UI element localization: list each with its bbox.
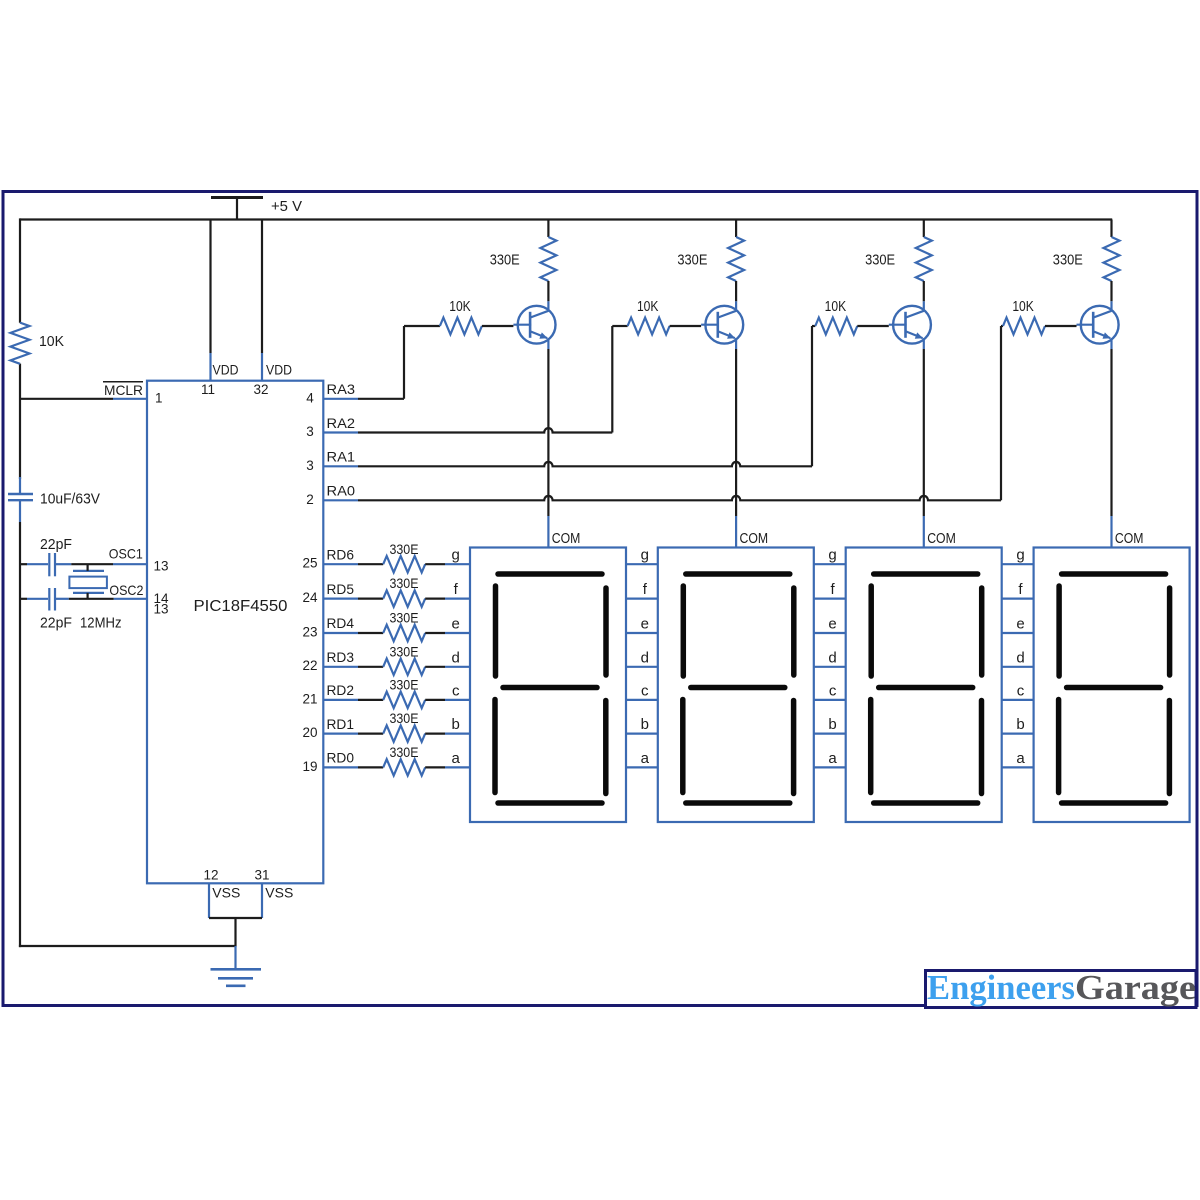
svg-text:330E: 330E [390, 677, 419, 693]
wire resistor to Q1 collector [547, 281, 549, 301]
ground [211, 968, 262, 971]
svg-text:RA3: RA3 [327, 381, 356, 397]
wire RA0 net to Q4 base resistor [358, 496, 1001, 500]
svg-text:d: d [641, 649, 649, 666]
svg-text:a: a [452, 750, 461, 767]
svg-text:d: d [1016, 649, 1024, 666]
svg-text:VSS: VSS [212, 886, 240, 901]
svg-text:COM: COM [927, 531, 956, 547]
transistor Q2 [701, 301, 743, 349]
svg-text:3: 3 [306, 424, 314, 439]
svg-text:1: 1 [155, 391, 163, 406]
svg-text:19: 19 [302, 759, 317, 774]
wire segment c bus DIS2 to DIS3 [814, 699, 846, 701]
svg-text:b: b [828, 716, 836, 733]
wire segment a bus DIS1 to DIS2 [626, 766, 658, 768]
wire RD5 to resistor [358, 597, 383, 599]
svg-text:RD4: RD4 [327, 615, 355, 631]
wire RD4 to resistor [358, 632, 383, 634]
wire resistor to segment c [425, 699, 445, 701]
svg-text:OSC1: OSC1 [109, 546, 143, 562]
resistor R14 10K base Q3 [812, 325, 815, 327]
resistor R16 10K base Q4 [1001, 325, 1003, 327]
resistor R6 330E segment c [383, 692, 425, 708]
wire segment g bus DIS3 to DIS4 [1002, 563, 1034, 565]
svg-text:25: 25 [302, 556, 317, 571]
wire resistor to segment f [425, 597, 445, 599]
wire +5V power rail [20, 218, 1112, 220]
wire segment f bus DIS2 to DIS3 [814, 597, 846, 599]
svg-text:c: c [452, 682, 460, 699]
resistor R5 330E segment d [383, 659, 425, 675]
wire Q3 emitter to COM [923, 349, 925, 516]
wire bottom rail [19, 945, 236, 947]
wire resistor to segment e [425, 632, 445, 634]
pin 23 RD4 [323, 632, 358, 634]
wire resistor to segment a [425, 766, 445, 768]
pin 24 RD5 [323, 597, 358, 599]
wire resistor to Q2 collector [735, 281, 737, 301]
wire segment b bus DIS1 to DIS2 [626, 732, 658, 734]
svg-text:24: 24 [302, 590, 318, 605]
pin 4 RA3 [323, 398, 358, 400]
wire RD3 to resistor [358, 666, 383, 668]
svg-text:330E: 330E [390, 744, 419, 760]
svg-text:330E: 330E [677, 253, 707, 269]
capacitor C3 22pF [48, 588, 50, 611]
svg-text:g: g [1016, 547, 1024, 564]
resistor R9 330E collector Q1 [540, 237, 556, 281]
svg-text:RD3: RD3 [327, 649, 355, 665]
svg-text:31: 31 [254, 868, 269, 883]
svg-text:330E: 330E [390, 710, 419, 726]
svg-text:d: d [828, 649, 836, 666]
svg-text:RD6: RD6 [327, 546, 355, 562]
wire RD2 to resistor [358, 699, 383, 701]
wire RD6 to resistor [358, 563, 383, 565]
svg-text:g: g [641, 547, 649, 564]
pin 20 RD1 [323, 732, 358, 734]
wire segment d bus DIS1 to DIS2 [626, 666, 658, 668]
svg-text:10K: 10K [449, 299, 471, 315]
wire RD1 to resistor [358, 732, 383, 734]
wire Q4 emitter to COM [1110, 349, 1112, 516]
svg-text:10K: 10K [637, 299, 659, 315]
svg-text:RD5: RD5 [327, 581, 355, 597]
7-segment display DIS2 [658, 548, 814, 823]
wire Q1 emitter to COM [547, 349, 549, 516]
wire segment b bus DIS3 to DIS4 [1002, 732, 1034, 734]
wire OSC1 net [20, 563, 27, 565]
transistor Q1 [513, 301, 555, 349]
+5V supply symbol [211, 196, 263, 199]
resistor R10 10K base Q1 [404, 325, 440, 327]
svg-text:b: b [641, 716, 649, 733]
svg-text:12MHz: 12MHz [80, 615, 122, 631]
svg-text:2: 2 [306, 492, 314, 507]
svg-text:RD0: RD0 [327, 750, 355, 766]
svg-text:22pF: 22pF [40, 537, 72, 553]
svg-text:23: 23 [302, 624, 317, 639]
pin 31 VSS [261, 883, 263, 918]
svg-text:a: a [1016, 750, 1025, 767]
resistor R15 330E collector Q4 [1104, 237, 1120, 281]
wire segment g bus DIS1 to DIS2 [626, 563, 658, 565]
wire segment e bus DIS2 to DIS3 [814, 632, 846, 634]
svg-text:10uF/63V: 10uF/63V [40, 492, 100, 508]
pin 2 RA0 [323, 499, 358, 501]
7-segment display DIS3 [846, 548, 1002, 823]
wire segment d bus DIS3 to DIS4 [1002, 666, 1034, 668]
wire +5V to collector resistor Q1 [547, 220, 549, 238]
wire resistor to segment g [425, 563, 445, 565]
svg-text:c: c [1017, 682, 1025, 699]
IC U1 PIC18F4550 [147, 381, 323, 884]
svg-text:MCLR: MCLR [104, 382, 143, 398]
pin 19 RD0 [323, 766, 358, 768]
pin 3 RA1 [323, 465, 358, 467]
pin 21 RD2 [323, 699, 358, 701]
svg-text:20: 20 [302, 725, 317, 740]
svg-text:330E: 330E [1053, 253, 1083, 269]
resistor R1 10K pull-up [11, 323, 30, 364]
svg-text:b: b [452, 716, 460, 733]
svg-text:22: 22 [302, 658, 317, 673]
wire segment e bus DIS3 to DIS4 [1002, 632, 1034, 634]
svg-text:10K: 10K [1012, 299, 1034, 315]
svg-text:d: d [452, 649, 460, 666]
svg-text:COM: COM [1115, 531, 1144, 547]
wire RA3 net to Q1 base resistor [358, 398, 404, 400]
svg-text:330E: 330E [390, 643, 419, 659]
crystal X1 12MHz [73, 570, 104, 572]
svg-text:g: g [828, 547, 836, 564]
capacitor C2 22pF [48, 553, 50, 576]
wire segment c bus DIS3 to DIS4 [1002, 699, 1034, 701]
svg-text:13: 13 [154, 558, 169, 573]
svg-text:PIC18F4550: PIC18F4550 [194, 598, 288, 615]
wire segment a bus DIS3 to DIS4 [1002, 766, 1034, 768]
svg-text:e: e [1016, 616, 1024, 633]
svg-text:21: 21 [302, 691, 317, 706]
wire RA1 net to Q3 base resistor [358, 462, 812, 466]
wire Q2 emitter to COM [735, 349, 737, 516]
svg-text:COM: COM [740, 531, 769, 547]
pin 22 RD3 [323, 666, 358, 668]
wire segment g bus DIS2 to DIS3 [814, 563, 846, 565]
svg-text:OSC2: OSC2 [109, 582, 143, 598]
svg-text:RA1: RA1 [327, 449, 356, 465]
pin 12 VSS [208, 883, 210, 918]
svg-text:330E: 330E [390, 541, 419, 557]
resistor R3 330E segment f [383, 590, 425, 606]
svg-text:11: 11 [201, 382, 215, 397]
wire segment d bus DIS2 to DIS3 [814, 666, 846, 668]
pin 32 VDD [261, 220, 263, 354]
transistor Q4 [1077, 301, 1119, 349]
pin 11 VDD [209, 220, 211, 354]
7-segment display DIS1 [470, 548, 626, 823]
resistor R7 330E segment b [383, 725, 425, 741]
wire RD0 to resistor [358, 766, 383, 768]
wire segment e bus DIS1 to DIS2 [626, 632, 658, 634]
svg-text:RA0: RA0 [327, 483, 356, 499]
svg-text:c: c [829, 682, 837, 699]
wire segment f bus DIS1 to DIS2 [626, 597, 658, 599]
svg-text:b: b [1016, 716, 1024, 733]
capacitor C1 10uF/63V [8, 493, 33, 495]
resistor R2 330E segment g [383, 556, 425, 572]
wire resistor to segment d [425, 666, 445, 668]
resistor R8 330E segment a [383, 759, 425, 775]
svg-text:e: e [828, 616, 836, 633]
wire +5V to collector resistor Q4 [1110, 220, 1112, 238]
svg-text:4: 4 [306, 391, 314, 406]
svg-text:RA2: RA2 [327, 415, 356, 431]
pin 25 RD6 [323, 563, 358, 565]
wire RA2 net to Q2 base resistor [358, 428, 612, 432]
resistor R11 330E collector Q2 [728, 237, 744, 281]
svg-text:330E: 330E [390, 575, 419, 591]
wire segment a bus DIS2 to DIS3 [814, 766, 846, 768]
svg-text:e: e [641, 616, 649, 633]
wire MCLR net [20, 398, 113, 400]
wire left rail [19, 218, 21, 322]
svg-text:22pF: 22pF [40, 615, 72, 631]
wire resistor to Q4 collector [1110, 281, 1112, 301]
svg-text:+5 V: +5 V [271, 198, 302, 215]
svg-text:VDD: VDD [266, 363, 292, 378]
transistor Q3 [889, 301, 931, 349]
wire segment c bus DIS1 to DIS2 [626, 699, 658, 701]
svg-text:330E: 330E [390, 610, 419, 626]
wire OSC2 net [20, 598, 27, 600]
resistor R4 330E segment e [383, 625, 425, 641]
svg-text:c: c [641, 682, 649, 699]
wire segment b bus DIS2 to DIS3 [814, 732, 846, 734]
svg-text:Garage: Garage [1075, 968, 1196, 1007]
svg-text:e: e [452, 616, 460, 633]
svg-text:a: a [828, 750, 837, 767]
svg-text:a: a [641, 750, 650, 767]
wire +5V to collector resistor Q2 [735, 220, 737, 238]
svg-text:RD2: RD2 [327, 682, 355, 698]
pin 3 RA2 [323, 431, 358, 433]
wire resistor to Q3 collector [923, 281, 925, 301]
resistor R12 10K base Q2 [612, 325, 627, 327]
svg-text:VSS: VSS [265, 886, 293, 901]
svg-text:COM: COM [552, 531, 581, 547]
resistor R13 330E collector Q3 [916, 237, 932, 281]
svg-text:VDD: VDD [213, 363, 239, 378]
wire +5V to collector resistor Q3 [923, 220, 925, 238]
svg-text:330E: 330E [865, 253, 895, 269]
svg-text:330E: 330E [490, 253, 520, 269]
wire segment f bus DIS3 to DIS4 [1002, 597, 1034, 599]
svg-text:10K: 10K [825, 299, 847, 315]
wire resistor to segment b [425, 732, 445, 734]
svg-text:Engineers: Engineers [927, 968, 1075, 1007]
svg-text:12: 12 [203, 868, 218, 883]
svg-text:13: 13 [154, 602, 169, 617]
svg-text:32: 32 [253, 382, 268, 397]
svg-text:3: 3 [306, 458, 314, 473]
7-segment display DIS4 [1034, 548, 1190, 823]
svg-text:RD1: RD1 [327, 716, 355, 732]
svg-text:10K: 10K [39, 334, 64, 350]
wire VSS to ground [209, 917, 262, 919]
svg-text:g: g [452, 547, 460, 564]
